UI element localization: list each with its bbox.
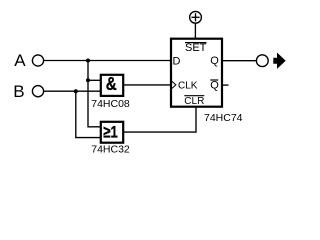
node junction AND input — [86, 78, 90, 82]
svg-text:&: & — [106, 74, 117, 94]
svg-text:Q: Q — [210, 79, 219, 91]
svg-text:B: B — [13, 82, 24, 101]
terminal A — [32, 55, 43, 66]
output arrow — [273, 53, 285, 69]
svg-text:SET: SET — [185, 42, 207, 54]
wire OR output to CLR — [124, 107, 197, 132]
wire AND output to CLK — [124, 84, 171, 86]
wire B vertical branch to OR input 2 — [76, 91, 101, 137]
D flip-flop 74HC74 box — [171, 39, 222, 107]
svg-text:74HC08: 74HC08 — [91, 98, 130, 110]
svg-text:Q: Q — [210, 55, 219, 67]
OR gate 74HC32 box — [101, 122, 123, 143]
output terminal — [256, 55, 268, 67]
node junction B-branch — [74, 89, 78, 93]
wire B to AND input 2 — [44, 90, 101, 92]
AND gate 74HC08 box — [101, 75, 123, 96]
svg-text:CLK: CLK — [178, 80, 198, 91]
wire to AND input 1 — [88, 79, 101, 81]
wire A vertical branch — [88, 61, 101, 127]
svg-text:74HC74: 74HC74 — [204, 112, 243, 124]
svg-text:74HC32: 74HC32 — [91, 144, 130, 156]
power symbol plus — [190, 11, 202, 23]
terminal B — [32, 86, 43, 97]
clock edge triangle — [172, 81, 176, 88]
svg-text:D: D — [173, 55, 181, 67]
wire Q output — [223, 60, 257, 62]
node junction A-branch — [86, 59, 90, 63]
svg-text:A: A — [14, 51, 26, 70]
wire Q-bar stub — [223, 84, 229, 86]
svg-text:≥1: ≥1 — [103, 123, 118, 142]
svg-text:CLR: CLR — [184, 96, 204, 107]
wire A to D input — [44, 60, 171, 62]
wire SET pull-up — [194, 23, 196, 39]
